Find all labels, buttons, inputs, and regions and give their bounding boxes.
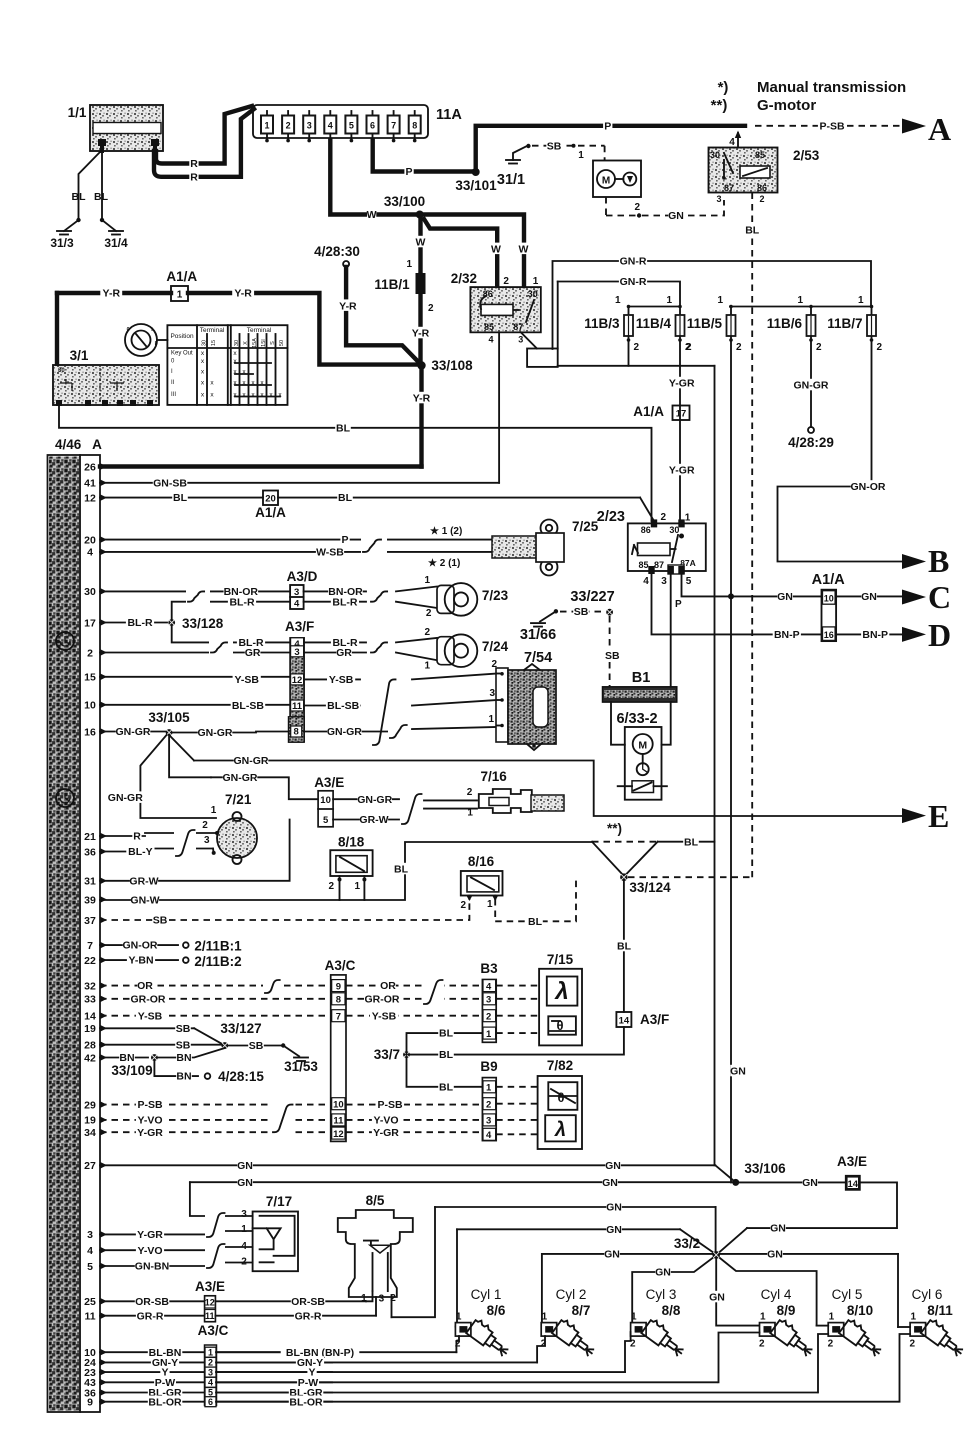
svg-text:11: 11	[292, 701, 303, 712]
svg-text:33/128: 33/128	[182, 616, 224, 631]
svg-text:6: 6	[208, 1397, 213, 1407]
svg-text:15: 15	[84, 672, 96, 684]
svg-text:GR: GR	[245, 647, 261, 659]
svg-text:W-SB: W-SB	[316, 547, 344, 559]
svg-text:1: 1	[615, 295, 621, 306]
svg-text:Cyl 4: Cyl 4	[761, 1287, 792, 1302]
svg-text:A: A	[92, 437, 102, 452]
svg-text:31/1: 31/1	[497, 172, 525, 188]
svg-text:W: W	[367, 209, 377, 221]
svg-text:GN-GR: GN-GR	[198, 727, 233, 739]
svg-text:SB: SB	[547, 140, 562, 152]
svg-text:8/7: 8/7	[572, 1303, 591, 1318]
svg-text:30: 30	[58, 368, 65, 374]
svg-text:2/32: 2/32	[451, 271, 477, 286]
svg-text:BL-R: BL-R	[332, 596, 357, 608]
svg-text:14: 14	[848, 1179, 859, 1190]
svg-text:Y-BN: Y-BN	[128, 955, 153, 967]
svg-text:1: 1	[456, 1312, 462, 1323]
svg-text:GN: GN	[605, 1160, 621, 1172]
svg-text:4: 4	[328, 121, 333, 131]
svg-text:31/53: 31/53	[284, 1059, 318, 1074]
svg-text:GN-R: GN-R	[620, 276, 647, 288]
svg-text:3: 3	[661, 576, 667, 587]
svg-text:A1/A: A1/A	[166, 269, 197, 284]
svg-text:2: 2	[816, 342, 822, 353]
svg-text:31: 31	[84, 876, 96, 888]
svg-text:BL: BL	[617, 941, 632, 953]
svg-text:Y-R: Y-R	[413, 393, 431, 405]
svg-text:2: 2	[486, 1012, 491, 1023]
svg-text:R: R	[190, 171, 198, 183]
svg-text:P-SB: P-SB	[819, 120, 845, 132]
svg-text:2: 2	[661, 512, 667, 523]
svg-text:BL-OR: BL-OR	[289, 1396, 323, 1408]
svg-text:BL-R: BL-R	[127, 617, 152, 629]
svg-text:19: 19	[84, 1115, 96, 1127]
svg-text:2: 2	[202, 820, 208, 831]
svg-text:OR: OR	[137, 980, 153, 992]
svg-text:30: 30	[528, 289, 538, 299]
svg-text:1: 1	[467, 808, 473, 819]
svg-text:1: 1	[578, 150, 584, 161]
svg-text:A: A	[928, 111, 951, 147]
svg-text:Y-VO: Y-VO	[137, 1245, 162, 1257]
svg-text:31/4: 31/4	[104, 236, 128, 250]
svg-text:3/1: 3/1	[70, 348, 89, 363]
svg-text:17: 17	[84, 617, 96, 629]
svg-text:2: 2	[428, 303, 434, 314]
svg-text:41: 41	[84, 478, 96, 490]
svg-text:B: B	[928, 543, 949, 579]
svg-text:2: 2	[759, 1339, 765, 1350]
svg-text:50: 50	[279, 340, 285, 346]
svg-text:SB: SB	[605, 650, 620, 662]
svg-text:GN: GN	[606, 1224, 622, 1236]
svg-text:4/28:15: 4/28:15	[218, 1069, 264, 1084]
svg-text:1: 1	[685, 513, 691, 524]
svg-text:GN: GN	[730, 1066, 746, 1078]
svg-text:4: 4	[87, 547, 93, 559]
svg-text:3: 3	[489, 688, 495, 699]
svg-text:1/1: 1/1	[68, 105, 87, 120]
svg-text:4/28:30: 4/28:30	[314, 244, 360, 259]
svg-text:Manual transmission: Manual transmission	[757, 79, 906, 96]
svg-text:E: E	[928, 798, 949, 834]
svg-text:BL: BL	[338, 492, 353, 504]
svg-text:42: 42	[84, 1052, 96, 1064]
svg-text:1: 1	[760, 1312, 766, 1323]
svg-text:7/25: 7/25	[572, 519, 599, 534]
svg-text:4: 4	[729, 137, 735, 148]
svg-text:λ: λ	[553, 978, 568, 1005]
svg-text:Cyl 3: Cyl 3	[646, 1287, 677, 1302]
svg-text:8/16: 8/16	[468, 854, 495, 869]
svg-text:4/28:29: 4/28:29	[788, 435, 834, 450]
svg-text:A1/A: A1/A	[633, 404, 664, 419]
svg-text:A3/E: A3/E	[195, 1279, 225, 1294]
svg-text:BL: BL	[72, 191, 87, 203]
svg-text:GN-OR: GN-OR	[851, 481, 886, 493]
svg-text:P-SB: P-SB	[137, 1099, 163, 1111]
svg-text:3: 3	[241, 1209, 247, 1220]
svg-text:3: 3	[208, 1367, 213, 1377]
svg-text:1: 1	[486, 1083, 492, 1094]
svg-text:GN: GN	[861, 591, 877, 603]
svg-text:BL: BL	[439, 1049, 454, 1061]
svg-text:BL: BL	[336, 422, 351, 434]
svg-text:5: 5	[686, 576, 692, 587]
svg-text:2: 2	[491, 659, 497, 670]
svg-text:27: 27	[84, 1160, 96, 1172]
svg-text:20: 20	[84, 534, 96, 546]
svg-text:OR: OR	[380, 980, 396, 992]
svg-text:12: 12	[84, 492, 96, 504]
svg-text:Y-SB: Y-SB	[138, 1010, 163, 1022]
svg-text:37: 37	[84, 915, 96, 927]
svg-text:16: 16	[84, 726, 96, 738]
svg-text:Terminal: Terminal	[247, 327, 272, 334]
svg-text:GN: GN	[237, 1177, 253, 1189]
svg-text:5: 5	[87, 1261, 93, 1273]
svg-text:33/101: 33/101	[455, 178, 497, 193]
svg-text:12: 12	[333, 1129, 344, 1140]
svg-text:2: 2	[87, 647, 93, 659]
svg-text:12: 12	[205, 1297, 215, 1307]
svg-text:1: 1	[354, 881, 360, 892]
svg-text:11B/7: 11B/7	[827, 316, 862, 331]
svg-text:25: 25	[84, 1296, 96, 1308]
svg-text:87: 87	[724, 183, 734, 193]
svg-text:A1/A: A1/A	[255, 505, 286, 520]
svg-text:Y-SB: Y-SB	[234, 674, 259, 686]
svg-text:16: 16	[824, 630, 834, 640]
svg-text:GR-OR: GR-OR	[131, 993, 166, 1005]
svg-text:BL: BL	[173, 492, 188, 504]
svg-text:21: 21	[84, 831, 96, 843]
svg-text:28: 28	[84, 1040, 96, 1052]
svg-text:30: 30	[710, 150, 720, 160]
svg-text:BN: BN	[176, 1052, 191, 1064]
svg-text:Y-R: Y-R	[103, 288, 121, 300]
svg-text:BL-R: BL-R	[229, 596, 254, 608]
svg-text:SB: SB	[176, 1023, 191, 1035]
svg-text:OR-SB: OR-SB	[135, 1296, 169, 1308]
svg-text:GN-GR: GN-GR	[357, 794, 392, 806]
svg-text:GN-R: GN-R	[620, 256, 647, 268]
svg-text:GN-GR: GN-GR	[223, 772, 258, 784]
svg-text:11: 11	[333, 1116, 344, 1127]
svg-text:BN-P: BN-P	[862, 629, 888, 641]
svg-text:OR-SB: OR-SB	[291, 1296, 325, 1308]
svg-text:4: 4	[488, 335, 493, 345]
svg-text:33: 33	[84, 994, 96, 1006]
svg-text:1: 1	[666, 295, 672, 306]
svg-text:P: P	[604, 120, 611, 132]
svg-text:BN: BN	[176, 1071, 191, 1083]
svg-text:33/127: 33/127	[220, 1021, 261, 1036]
svg-text:4: 4	[87, 1245, 93, 1257]
svg-text:2: 2	[634, 342, 640, 353]
svg-text:θ: θ	[557, 1090, 564, 1105]
svg-text:1: 1	[406, 259, 412, 270]
svg-text:10: 10	[320, 795, 331, 806]
svg-text:8/8: 8/8	[662, 1303, 681, 1318]
svg-text:Position: Position	[170, 333, 194, 340]
svg-text:Y-GR: Y-GR	[669, 465, 695, 477]
svg-text:39: 39	[84, 894, 96, 906]
svg-text:Terminal: Terminal	[200, 327, 225, 334]
svg-text:2/11B:1: 2/11B:1	[194, 939, 242, 954]
svg-text:10: 10	[333, 1100, 344, 1111]
svg-text:33/105: 33/105	[148, 710, 190, 725]
svg-text:85: 85	[755, 150, 765, 160]
svg-text:1: 1	[858, 295, 864, 306]
svg-text:3: 3	[486, 1116, 491, 1127]
svg-text:A3/E: A3/E	[314, 775, 344, 790]
svg-text:2: 2	[286, 121, 291, 131]
svg-text:GN: GN	[604, 1249, 620, 1261]
svg-text:1: 1	[487, 899, 493, 910]
svg-text:8: 8	[336, 995, 341, 1006]
svg-text:8/10: 8/10	[847, 1303, 873, 1318]
svg-text:11B/5: 11B/5	[687, 316, 723, 331]
svg-text:3: 3	[379, 1294, 385, 1305]
svg-text:Y-VO: Y-VO	[373, 1115, 398, 1127]
svg-text:BN-P: BN-P	[774, 629, 800, 641]
svg-text:7/23: 7/23	[482, 588, 509, 603]
svg-text:3: 3	[87, 1229, 93, 1241]
svg-text:1: 1	[208, 1347, 213, 1357]
svg-text:GR-R: GR-R	[295, 1310, 322, 1322]
svg-text:1: 1	[264, 121, 269, 131]
svg-text:15: 15	[211, 340, 217, 346]
svg-text:GR-W: GR-W	[359, 814, 388, 826]
svg-text:3: 3	[294, 587, 299, 598]
svg-text:33/124: 33/124	[629, 880, 671, 895]
svg-text:GN: GN	[655, 1267, 671, 1279]
svg-text:1: 1	[717, 295, 723, 306]
svg-text:GR-R: GR-R	[137, 1310, 164, 1322]
svg-text:86: 86	[641, 525, 651, 535]
svg-text:BL: BL	[745, 225, 760, 237]
svg-text:5: 5	[323, 815, 329, 826]
svg-text:32: 32	[84, 980, 96, 992]
svg-text:★ 1 (2): ★ 1 (2)	[430, 526, 462, 537]
svg-text:1: 1	[911, 1312, 917, 1323]
svg-text:2: 2	[686, 342, 692, 353]
svg-text:7: 7	[336, 1012, 341, 1023]
svg-text:A3/C: A3/C	[325, 958, 356, 973]
svg-text:1: 1	[424, 575, 430, 586]
svg-text:1: 1	[361, 1293, 367, 1304]
svg-text:BL: BL	[439, 1081, 454, 1093]
svg-text:1: 1	[542, 1312, 548, 1323]
svg-text:BL-Y: BL-Y	[128, 846, 153, 858]
svg-text:7/21: 7/21	[225, 792, 252, 807]
svg-text:30: 30	[669, 525, 679, 535]
svg-text:11B/4: 11B/4	[636, 316, 672, 331]
svg-text:2/23: 2/23	[597, 509, 625, 525]
svg-text:Cyl 6: Cyl 6	[912, 1287, 943, 1302]
svg-text:SB: SB	[176, 1039, 191, 1051]
svg-text:34: 34	[84, 1127, 96, 1139]
svg-text:6/33-2: 6/33-2	[616, 711, 657, 727]
svg-text:14: 14	[84, 1011, 96, 1023]
svg-text:1: 1	[797, 295, 803, 306]
svg-text:GN-W: GN-W	[130, 895, 159, 907]
svg-text:2: 2	[759, 194, 764, 204]
svg-text:BL: BL	[394, 864, 409, 876]
svg-text:3: 3	[294, 647, 299, 658]
svg-text:P: P	[405, 166, 412, 178]
svg-text:**): **)	[607, 821, 622, 836]
svg-text:7/16: 7/16	[480, 769, 507, 784]
svg-text:Y-R: Y-R	[412, 328, 430, 340]
svg-text:22: 22	[84, 955, 96, 967]
svg-text:2: 2	[208, 1358, 213, 1368]
svg-text:33/109: 33/109	[111, 1063, 152, 1078]
svg-text:Cyl 5: Cyl 5	[832, 1287, 863, 1302]
svg-text:B9: B9	[480, 1059, 497, 1074]
svg-text:GR: GR	[336, 647, 352, 659]
svg-text:9: 9	[336, 981, 341, 992]
svg-text:2: 2	[424, 627, 430, 638]
svg-text:11B/1: 11B/1	[374, 277, 410, 292]
svg-text:12: 12	[292, 675, 303, 686]
svg-text:9: 9	[87, 1397, 93, 1409]
svg-text:GN-GR: GN-GR	[794, 380, 829, 392]
svg-text:II: II	[171, 380, 175, 386]
svg-text:33/108: 33/108	[431, 358, 473, 373]
svg-text:4: 4	[643, 576, 649, 587]
svg-text:3: 3	[204, 835, 210, 846]
svg-text:14: 14	[619, 1016, 630, 1027]
svg-text:2: 2	[910, 1339, 916, 1350]
svg-text:8/9: 8/9	[777, 1303, 796, 1318]
svg-text:GN: GN	[777, 591, 793, 603]
svg-text:87: 87	[654, 560, 664, 570]
svg-text:36: 36	[84, 846, 96, 858]
svg-text:Y-GR: Y-GR	[137, 1127, 163, 1139]
svg-text:GN-GR: GN-GR	[327, 726, 362, 738]
svg-text:A3/F: A3/F	[640, 1012, 669, 1027]
svg-text:A3/C: A3/C	[198, 1323, 229, 1338]
svg-text:29: 29	[84, 1099, 96, 1111]
svg-text:P: P	[341, 534, 348, 546]
svg-text:III: III	[171, 392, 176, 398]
svg-text:BL-SB: BL-SB	[232, 700, 264, 712]
svg-text:4: 4	[486, 1130, 492, 1141]
svg-text:GR-OR: GR-OR	[365, 993, 400, 1005]
svg-text:11B/3: 11B/3	[584, 316, 620, 331]
svg-text:3: 3	[518, 335, 523, 345]
svg-text:2: 2	[461, 900, 467, 911]
svg-text:11: 11	[84, 1311, 95, 1323]
svg-text:BL: BL	[439, 1028, 454, 1040]
svg-text:GN-SB: GN-SB	[153, 477, 187, 489]
svg-text:GN: GN	[606, 1202, 622, 1214]
svg-text:31/66: 31/66	[520, 627, 556, 643]
svg-text:20: 20	[265, 494, 276, 505]
svg-text:8/11: 8/11	[927, 1303, 953, 1318]
svg-text:BL-SB: BL-SB	[327, 700, 359, 712]
svg-text:30: 30	[84, 586, 96, 598]
svg-text:31/3: 31/3	[50, 236, 74, 250]
svg-text:**): **)	[711, 97, 728, 114]
svg-text:8/5: 8/5	[366, 1193, 385, 1208]
svg-text:3: 3	[486, 995, 491, 1006]
svg-text:Y-SB: Y-SB	[329, 674, 354, 686]
svg-text:GN: GN	[602, 1177, 618, 1189]
svg-text:GN: GN	[802, 1177, 818, 1189]
svg-text:17: 17	[676, 409, 687, 420]
svg-text:85: 85	[484, 322, 494, 332]
svg-text:BL-OR: BL-OR	[148, 1396, 182, 1408]
svg-text:1: 1	[211, 805, 217, 816]
svg-text:2: 2	[467, 787, 473, 798]
svg-text:SB: SB	[574, 606, 589, 618]
svg-text:6: 6	[370, 121, 375, 131]
svg-text:7: 7	[391, 121, 396, 131]
svg-text:0: 0	[127, 327, 130, 333]
svg-text:1: 1	[488, 714, 494, 725]
svg-text:7/17: 7/17	[266, 1194, 292, 1209]
svg-text:M: M	[638, 740, 647, 752]
svg-text:85: 85	[638, 560, 648, 570]
svg-text:GN: GN	[237, 1160, 253, 1172]
svg-text:Y-SB: Y-SB	[372, 1010, 397, 1022]
svg-text:SB: SB	[153, 915, 168, 927]
svg-text:M: M	[602, 176, 610, 187]
svg-text:1: 1	[486, 1029, 492, 1040]
svg-text:Y-GR: Y-GR	[669, 378, 695, 390]
svg-text:10: 10	[84, 700, 96, 712]
svg-text:2: 2	[736, 342, 742, 353]
svg-text:8: 8	[294, 727, 299, 738]
svg-text:7/15: 7/15	[547, 952, 574, 967]
svg-text:G-motor: G-motor	[757, 97, 816, 114]
svg-text:1: 1	[829, 1312, 835, 1323]
svg-text:2: 2	[503, 276, 509, 287]
svg-text:2: 2	[486, 1100, 491, 1111]
svg-text:2/11B:2: 2/11B:2	[194, 954, 241, 969]
svg-text:33/227: 33/227	[570, 589, 614, 605]
svg-text:P-SB: P-SB	[377, 1099, 403, 1111]
svg-text:W: W	[519, 243, 529, 255]
svg-text:C: C	[928, 579, 951, 615]
svg-text:A3/D: A3/D	[287, 569, 318, 584]
svg-text:11A: 11A	[436, 107, 462, 123]
svg-text:1: 1	[241, 1224, 247, 1235]
svg-text:3: 3	[307, 121, 312, 131]
svg-text:8/6: 8/6	[487, 1303, 506, 1318]
svg-text:GN-GR: GN-GR	[108, 792, 143, 804]
svg-text:33/2: 33/2	[674, 1236, 700, 1251]
svg-text:Y-GR: Y-GR	[373, 1127, 399, 1139]
svg-text:2/53: 2/53	[793, 148, 820, 163]
svg-text:GN: GN	[767, 1249, 783, 1261]
svg-text:BL: BL	[94, 191, 109, 203]
svg-text:2: 2	[635, 202, 641, 213]
svg-text:A3/E: A3/E	[837, 1154, 867, 1169]
svg-text:Y-R: Y-R	[234, 288, 252, 300]
svg-text:R: R	[190, 158, 198, 170]
svg-text:1: 1	[177, 290, 183, 301]
svg-text:GN-OR: GN-OR	[123, 940, 158, 952]
svg-text:11: 11	[205, 1311, 215, 1321]
svg-text:86: 86	[757, 183, 767, 193]
